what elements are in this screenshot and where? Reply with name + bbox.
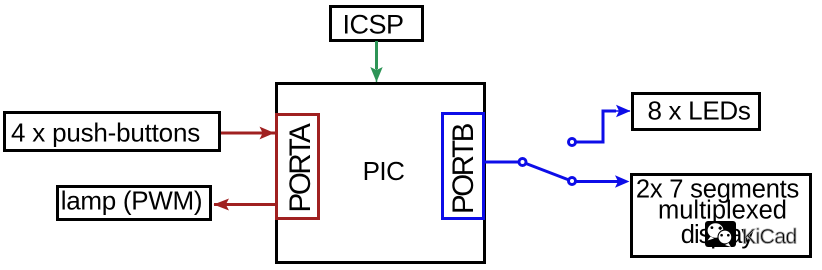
svg-text:4 x push-buttons: 4 x push-buttons — [11, 118, 200, 148]
label PIC — [363, 156, 405, 186]
label ICSP — [342, 10, 403, 40]
switch lever — [526, 164, 569, 181]
svg-text:PORTB: PORTB — [447, 123, 480, 214]
arrowhead into lamp (dark red) — [214, 199, 230, 211]
watermark WeChat icon — [705, 221, 736, 247]
svg-text:PORTA: PORTA — [284, 123, 317, 213]
label lamp (PWM) — [61, 186, 202, 216]
arrowhead into PORTA (dark red) — [260, 127, 275, 140]
switch throw contact lower — [569, 178, 576, 185]
switch pole contact — [519, 159, 526, 166]
svg-text:PIC: PIC — [363, 156, 405, 186]
box 8 x LEDs — [633, 94, 760, 130]
label display line 1 — [636, 175, 799, 203]
wire PORTA to lamp (dark red) — [214, 203, 277, 206]
label PORTB (rotated) — [447, 123, 480, 214]
box 4 x push-buttons — [5, 113, 220, 151]
svg-text:lamp (PWM): lamp (PWM) — [61, 186, 202, 216]
block U1 PIC microcontroller — [277, 84, 485, 263]
box 2x 7 segments multiplexed display — [632, 175, 811, 257]
label display line 2 — [658, 197, 787, 225]
wire lower throw to display (blue) — [576, 180, 618, 183]
watermark text KiCad — [742, 225, 797, 248]
label 4 x push-buttons — [11, 118, 200, 148]
arrowhead into PIC (green) — [370, 67, 382, 82]
label PORTA (rotated) — [284, 123, 317, 213]
svg-text:ICSP: ICSP — [342, 10, 403, 40]
switch throw contact upper — [569, 139, 576, 146]
svg-text:KiCad: KiCad — [742, 225, 797, 248]
arrowhead into 8 x LEDs (blue) — [616, 105, 631, 117]
svg-text:8 x LEDs: 8 x LEDs — [647, 95, 750, 125]
arrowhead into display (blue) — [615, 175, 630, 187]
port box PORTB — [443, 114, 484, 219]
box ICSP connector — [331, 7, 423, 41]
box lamp (PWM) — [58, 187, 211, 220]
label display line 3 — [681, 221, 755, 249]
wire ICSP to PIC (green) — [375, 41, 378, 69]
label 8 x LEDs — [647, 95, 750, 125]
port box PORTA — [277, 115, 319, 219]
wire upper throw to LEDs corner (blue) — [576, 111, 616, 142]
wire push-buttons to PORTA (dark red) — [221, 132, 277, 135]
wire PORTB to switch pole (blue) — [484, 161, 518, 164]
